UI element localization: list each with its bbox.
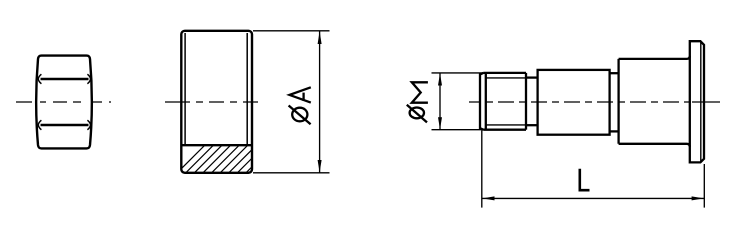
hex nut outline <box>36 56 92 149</box>
round nut section line (hatch band top) <box>181 144 252 146</box>
stud centerline <box>469 101 720 103</box>
extension line left for L <box>481 131 483 208</box>
extension line right for L <box>703 164 705 208</box>
stud middle cylinder <box>538 70 610 135</box>
extension line bottom for dia M <box>432 129 485 131</box>
label letter M of dia M <box>412 82 428 102</box>
arrowhead L left <box>482 196 494 200</box>
arrowhead dia M top <box>438 73 442 85</box>
stud thread end vertical <box>525 73 527 130</box>
arrowhead dia A top <box>318 31 322 44</box>
stud thread crest top <box>483 72 526 74</box>
stud large cylinder left face <box>617 59 619 144</box>
stud thread chamfer line <box>485 73 487 130</box>
stud thread crest bottom <box>483 129 526 131</box>
extension line bottom for dia A <box>253 172 330 174</box>
stud relief groove 2 bottom <box>610 130 619 132</box>
round nut outline <box>181 31 252 173</box>
dimension line L <box>482 197 705 199</box>
stud large cylinder bottom edge with fillet <box>619 144 690 147</box>
hex nut chamfer wedge upper-left <box>38 74 41 83</box>
stud relief groove 2 top <box>610 72 619 74</box>
stud large cylinder top edge with fillet <box>619 56 690 59</box>
label letter A of dia A <box>290 87 311 102</box>
stud relief groove 1 top <box>526 76 538 78</box>
hex nut flat divider upper <box>41 78 89 80</box>
label letter L <box>580 169 590 191</box>
stud thread root bottom (thin) <box>486 124 526 126</box>
round nut hatching <box>176 144 275 174</box>
dimension line dia A <box>319 31 321 173</box>
stud thread end face with chamfer <box>480 73 483 130</box>
stud relief groove 1 bottom <box>526 124 538 126</box>
stud thread root top (thin) <box>486 77 526 79</box>
round nut chamfer line left <box>184 33 186 145</box>
round nut centerline <box>165 101 258 103</box>
arrowhead dia A bottom <box>318 160 322 173</box>
hex nut flat divider lower <box>41 124 89 126</box>
arrowhead L right <box>692 196 704 200</box>
hex nut centerline <box>16 101 112 103</box>
arrowhead dia M bottom <box>438 117 442 129</box>
label diameter symbol of dia M <box>407 105 427 123</box>
stud flange outline <box>690 41 704 162</box>
hex nut chamfer wedge upper-right <box>87 74 90 83</box>
dimension line dia M <box>439 73 441 130</box>
hex nut chamfer wedge lower-left <box>38 120 41 129</box>
extension line top for dia M <box>432 72 485 74</box>
extension line top for dia A <box>253 30 330 32</box>
label diameter symbol of dia A <box>289 106 311 125</box>
hex nut chamfer wedge lower-right <box>87 120 90 129</box>
stud flange chamfer edge line <box>700 42 702 162</box>
round nut chamfer line right <box>246 33 248 145</box>
